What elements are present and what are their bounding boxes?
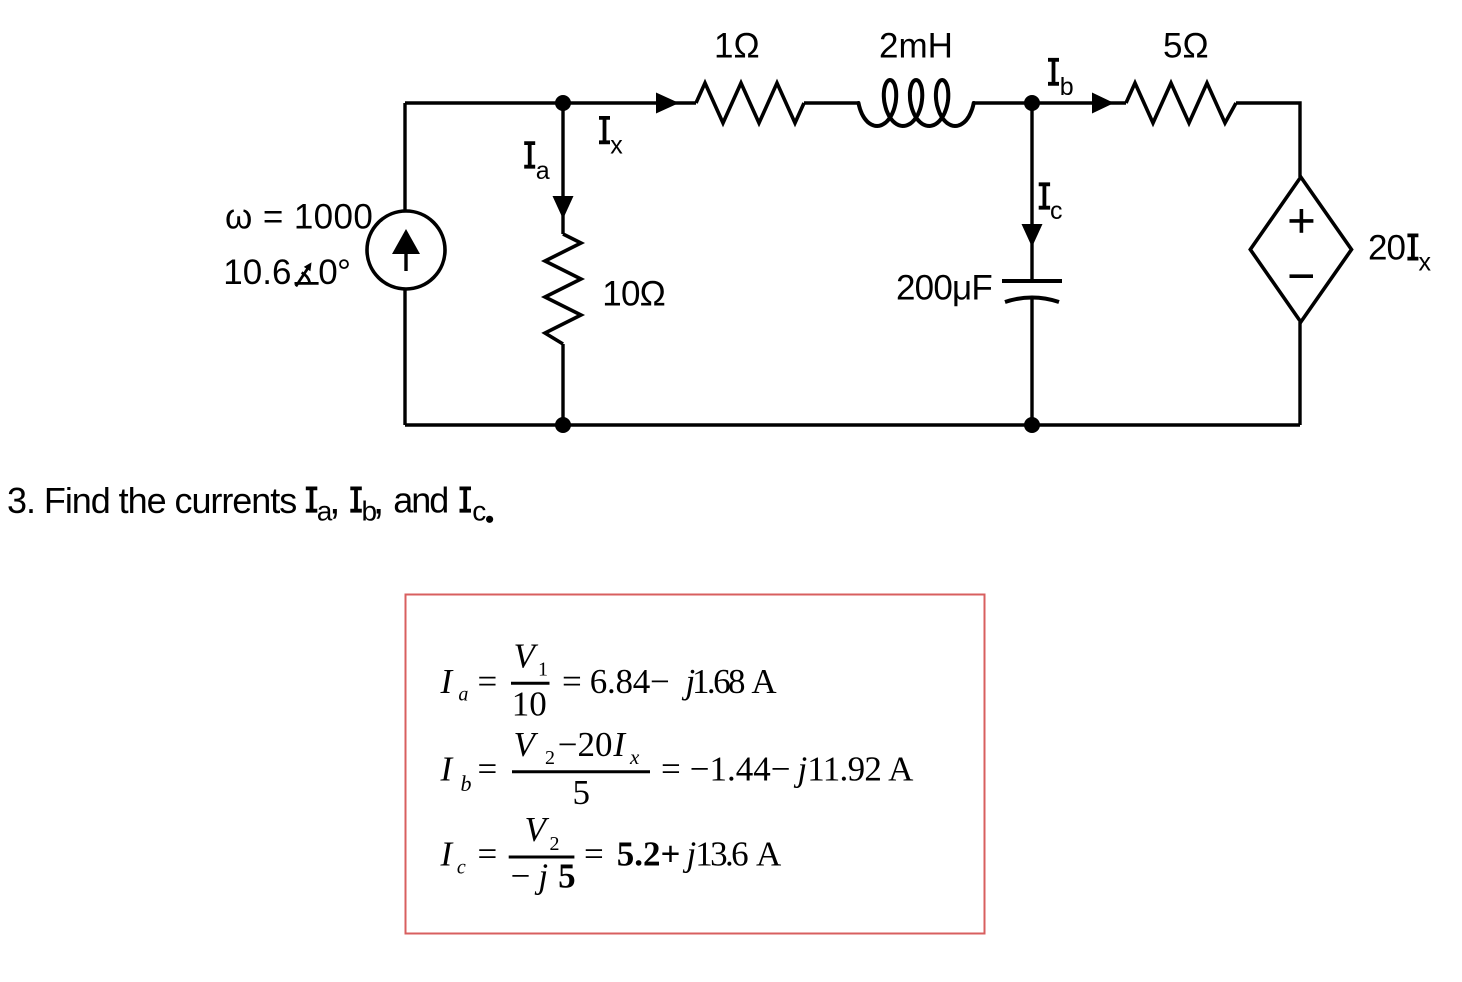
solution box red border xyxy=(406,595,985,934)
svg-text:10.6: 10.6 xyxy=(223,253,291,292)
svg-text:c: c xyxy=(1050,197,1063,225)
wire left vertical below source xyxy=(403,289,406,425)
svg-text:I: I xyxy=(440,750,455,789)
current source I1 measured-angle arrowhead xyxy=(304,262,312,271)
svg-text:1: 1 xyxy=(538,658,548,680)
wire bottom horizontal xyxy=(405,423,1300,426)
svg-text:200μF: 200μF xyxy=(896,268,992,307)
svg-text:−20: −20 xyxy=(558,725,613,764)
current source I1 arrow xyxy=(392,229,420,271)
svg-text:ω = 1000: ω = 1000 xyxy=(225,198,373,237)
wire resistor R3 right to top-right corner xyxy=(1236,103,1300,177)
svg-text:=: = xyxy=(478,662,498,701)
svg-text:−j5: −j5 xyxy=(511,857,576,896)
wire resistor R2 right to inductor L1 left xyxy=(804,101,858,104)
wire top-left horizontal (source to node 1) xyxy=(405,101,656,104)
svg-text:20: 20 xyxy=(1368,229,1405,268)
wire node 2 down to capacitor C1 top plate xyxy=(1030,103,1033,281)
svg-text:2: 2 xyxy=(550,833,560,855)
current label Ib xyxy=(1048,60,1059,84)
svg-text:V: V xyxy=(525,810,550,849)
svg-text:x: x xyxy=(1419,249,1432,277)
svg-text:=−1.44−j11.92A: =−1.44−j11.92A xyxy=(661,750,914,789)
node 1 junction dot (top of R1) xyxy=(555,95,571,111)
wire left vertical above source xyxy=(403,103,406,212)
svg-text:and: and xyxy=(393,480,447,521)
inductor L1 2mH coil xyxy=(859,80,974,126)
svg-text:b: b xyxy=(461,771,472,796)
svg-text:0: 0 xyxy=(318,253,337,292)
svg-text:V: V xyxy=(514,725,539,764)
equation Ic = V2/(-j5) = 5.2 + j13.6 A xyxy=(440,810,783,895)
resistor R3 5ohm horizontal zigzag xyxy=(1126,83,1236,123)
heading problem text xyxy=(7,476,493,527)
svg-text:6.84−j1.68A: 6.84−j1.68A xyxy=(590,662,778,701)
wire resistor R1 bottom to bottom rail xyxy=(561,344,564,425)
svg-text:=: = xyxy=(562,662,582,701)
svg-text:°: ° xyxy=(337,253,351,292)
svg-text:5: 5 xyxy=(573,773,591,812)
capacitor C1 bottom curved plate xyxy=(1005,298,1059,303)
current source I1 measured-angle symbol xyxy=(295,265,319,286)
wire node 1 to resistor R2 left xyxy=(660,101,696,104)
current arrow Ib on top wire after node 2 xyxy=(1092,93,1114,114)
resistor R1 10ohm vertical zigzag xyxy=(545,234,581,344)
svg-text:c: c xyxy=(472,496,486,527)
node 2 bottom junction dot xyxy=(1024,417,1040,433)
svg-text:2: 2 xyxy=(545,747,555,769)
current label Ix xyxy=(599,118,610,142)
current source I1 circle xyxy=(367,211,445,289)
svg-text:,: , xyxy=(373,476,385,523)
svg-text:b: b xyxy=(1060,73,1074,101)
svg-text:=: = xyxy=(478,750,498,789)
svg-text:I: I xyxy=(440,835,455,874)
current arrow Ia (down R1 branch) xyxy=(553,196,574,219)
svg-text:10: 10 xyxy=(512,685,547,724)
svg-text:c: c xyxy=(457,857,466,879)
wire inductor L1 right to node 2 xyxy=(974,101,1033,104)
equation Ia = V1/10 = 6.84 - j1.68 A xyxy=(440,637,778,724)
svg-text:1Ω: 1Ω xyxy=(714,27,760,66)
capacitor C1 top plate xyxy=(1002,279,1062,283)
svg-text:3. Find the currents: 3. Find the currents xyxy=(7,480,296,521)
svg-text:2mH: 2mH xyxy=(879,27,953,66)
dependent source E1 minus sign xyxy=(1290,274,1314,278)
equation Ib = (V2-20Ix)/5 = -1.44 - j11.92 A xyxy=(440,725,915,812)
current arrow Ix on top wire xyxy=(656,93,679,114)
current label Ic xyxy=(1039,184,1050,207)
svg-text:V: V xyxy=(514,637,539,676)
svg-text:5Ω: 5Ω xyxy=(1163,27,1209,66)
resistor R2 1ohm horizontal zigzag xyxy=(696,83,804,123)
svg-text:=: = xyxy=(478,835,498,874)
wire node 2 to resistor R3 left xyxy=(1032,101,1126,104)
dependent source E1 diamond xyxy=(1250,177,1351,322)
svg-text:x: x xyxy=(610,132,623,160)
wire capacitor C1 bottom plate to bottom rail xyxy=(1030,299,1033,425)
svg-text:I: I xyxy=(612,725,627,764)
svg-text:,: , xyxy=(329,476,341,523)
svg-text:=5.2+j13.6A: =5.2+j13.6A xyxy=(584,835,782,874)
dependent source E1 plus sign xyxy=(1290,209,1314,233)
wire node 1 down to resistor R1 top xyxy=(561,103,564,234)
svg-text:10Ω: 10Ω xyxy=(602,275,665,314)
node 2 junction dot (top of C1) xyxy=(1024,95,1040,111)
svg-text:a: a xyxy=(458,684,468,706)
svg-text:a: a xyxy=(536,157,550,185)
wire right vertical below dependent source xyxy=(1298,322,1301,425)
svg-text:x: x xyxy=(629,745,640,769)
current label Ia xyxy=(524,143,535,167)
current arrow Ic (down C1 branch) xyxy=(1022,224,1043,247)
svg-text:I: I xyxy=(440,662,455,701)
node 1 bottom junction dot xyxy=(555,417,571,433)
